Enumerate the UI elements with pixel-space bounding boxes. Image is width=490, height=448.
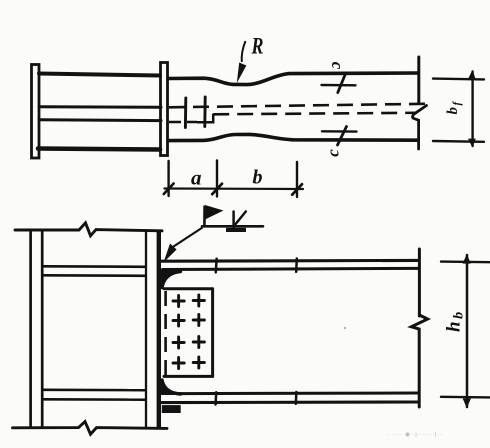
- column left flange outer line: [29, 231, 32, 428]
- beam cut end line (plan) with break: [417, 57, 420, 104]
- bevel weld symbol vertical: [232, 212, 235, 228]
- column web line upper (plan): [39, 105, 161, 108]
- dimension a-b: extension line left: [167, 161, 169, 196]
- continuity plate upper: top line: [44, 265, 146, 268]
- beam top flange edge with RBS cut (plan): [168, 73, 418, 85]
- hidden line jog at shear plate end (plan): [197, 114, 213, 123]
- dimension hb: arrow up: [463, 254, 471, 264]
- beam top flange lower line: [163, 268, 419, 269]
- column web line lower (plan): [39, 118, 161, 122]
- bolt row1 right: [193, 295, 204, 306]
- tick at left: [164, 184, 174, 195]
- continuity plate lower: bottom line: [44, 398, 146, 401]
- beam web hidden line lower near column (dashed): [169, 121, 197, 124]
- dimension c (bottom): tick: [338, 127, 347, 146]
- column top edge line with break: [15, 223, 162, 236]
- continuity plate edge bottom (plan): [38, 149, 160, 150]
- svg-text:a: a: [191, 166, 202, 190]
- dimension bf: text: [445, 100, 463, 114]
- beam web hidden line lower (dashed): [213, 113, 417, 115]
- top flange weld transition tick 2: [295, 259, 298, 272]
- column left flange inner line: [41, 231, 44, 428]
- backing symbol rectangle: [226, 228, 246, 232]
- column bottom edge line with break: [13, 422, 168, 435]
- dimension bf: extension line top: [433, 77, 484, 80]
- dimension bf: arrow down: [468, 139, 476, 148]
- continuity plate upper: bottom line: [44, 274, 146, 277]
- shear plate right edge: [211, 289, 214, 377]
- column right flange plate (plan): [161, 63, 168, 156]
- beam bottom flange edge with RBS cut (plan): [168, 134, 418, 140]
- dimension a-b: extension line middle: [216, 161, 218, 197]
- bolt row3 right: [193, 337, 204, 348]
- dimension a-b: dimension line: [165, 187, 304, 190]
- svg-text:c: c: [328, 62, 347, 70]
- continuity plate lower: top line: [44, 388, 146, 391]
- weld reference line: [202, 225, 263, 228]
- weld access hole scallop at bottom flange: [162, 380, 180, 394]
- bottom flange weld transition tick 2: [295, 392, 298, 404]
- weld leader arrow: [164, 244, 177, 263]
- bolt row1 left: [173, 296, 184, 307]
- bolt row4 right: [193, 357, 204, 368]
- bolt centerline tick 2 (plan): [203, 97, 206, 127]
- dimension hb: extension line bottom: [441, 396, 490, 399]
- field weld flag: [205, 205, 224, 220]
- faint speck: [344, 327, 346, 329]
- beam web hidden line upper (dashed): [169, 104, 426, 108]
- svg-text:c: c: [324, 149, 343, 157]
- bolt row3 left: [173, 337, 184, 348]
- faint watermark: [388, 432, 442, 438]
- tick at middle: [212, 184, 222, 195]
- svg-text:· ···· ◉ ·|·······|··: · ···· ◉ ·|·······|··: [388, 432, 442, 438]
- R leader line: [242, 41, 246, 62]
- beam end line (elevation) with break: [418, 249, 421, 316]
- bottom flange weld transition tick 1: [214, 392, 217, 404]
- column right flange outer line: [157, 231, 161, 428]
- shear plate bottom edge: [164, 375, 213, 378]
- weld leader line: [172, 228, 203, 248]
- bolt row4 left: [173, 358, 184, 369]
- svg-text:R: R: [251, 35, 264, 60]
- dimension a-b: extension line right: [296, 162, 298, 197]
- field weld flag stub: [203, 206, 206, 228]
- dimension bf: extension line bottom: [433, 140, 484, 143]
- bolt row2 left: [173, 315, 184, 326]
- dimension hb: text: [444, 309, 467, 332]
- shear plate left edge (dashed): [164, 291, 167, 375]
- dimension hb: dimension line: [466, 255, 469, 407]
- svg-text:b: b: [253, 167, 263, 189]
- bolt centerline tick 1 (plan): [184, 98, 187, 128]
- dimension c (top): tick: [338, 73, 346, 93]
- R label: [251, 35, 264, 60]
- weld access hole scallop at top flange: [162, 271, 180, 288]
- tick at right: [292, 184, 302, 195]
- continuity plate edge top (plan): [39, 74, 160, 76]
- dimension bf: dimension line: [471, 72, 473, 147]
- dimension hb: extension line top: [441, 260, 490, 263]
- R leader arrow: [237, 63, 247, 84]
- top flange weld transition tick 1: [215, 259, 218, 273]
- dimension hb: arrow down: [463, 398, 471, 408]
- dimension bf: arrow up: [468, 70, 476, 79]
- beam top flange upper line: [162, 259, 419, 263]
- column right flange inner line: [145, 231, 147, 428]
- bolt row2 right: [193, 315, 204, 326]
- bevel weld symbol diagonal: [234, 212, 246, 227]
- column left flange plate (plan): [32, 65, 40, 159]
- beam bottom flange lower line: [162, 400, 419, 404]
- shear plate top edge: [164, 287, 212, 290]
- dimension c (bottom): dim line: [322, 130, 357, 133]
- beam bottom flange upper line: [179, 392, 418, 396]
- backing bar under bottom flange: [163, 406, 181, 413]
- dimension c (top): dim line: [322, 84, 356, 87]
